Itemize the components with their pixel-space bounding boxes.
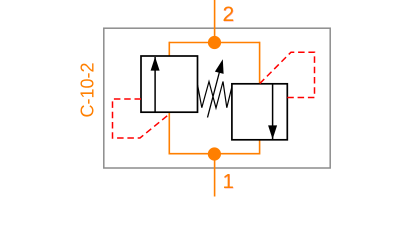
port 1 line (214, 154, 216, 197)
port 2 line (214, 0, 216, 43)
wire right top drop (259, 42, 261, 85)
left pilot line (dashed) (113, 99, 170, 138)
wire left top drop (168, 42, 170, 57)
right valve element box (232, 84, 287, 140)
wire left bottom riser (168, 112, 170, 155)
wire top rail (169, 42, 259, 44)
node 1 (bottom junction) (208, 147, 221, 160)
left valve element box (141, 56, 198, 112)
svg-text:1: 1 (223, 170, 234, 193)
spring (198, 82, 232, 109)
right pilot line (dashed) (260, 52, 315, 97)
adjustment arrow (208, 71, 220, 118)
wire right bottom riser (259, 140, 261, 155)
wire bottom rail (169, 153, 259, 155)
svg-text:2: 2 (223, 3, 235, 26)
left valve flow arrow (up) (154, 57, 156, 112)
valve envelope (body outline) (104, 28, 330, 168)
svg-text:C-10-2: C-10-2 (78, 62, 98, 117)
right valve flow arrow (down) (272, 85, 274, 140)
node 2 (top junction) (208, 36, 221, 49)
